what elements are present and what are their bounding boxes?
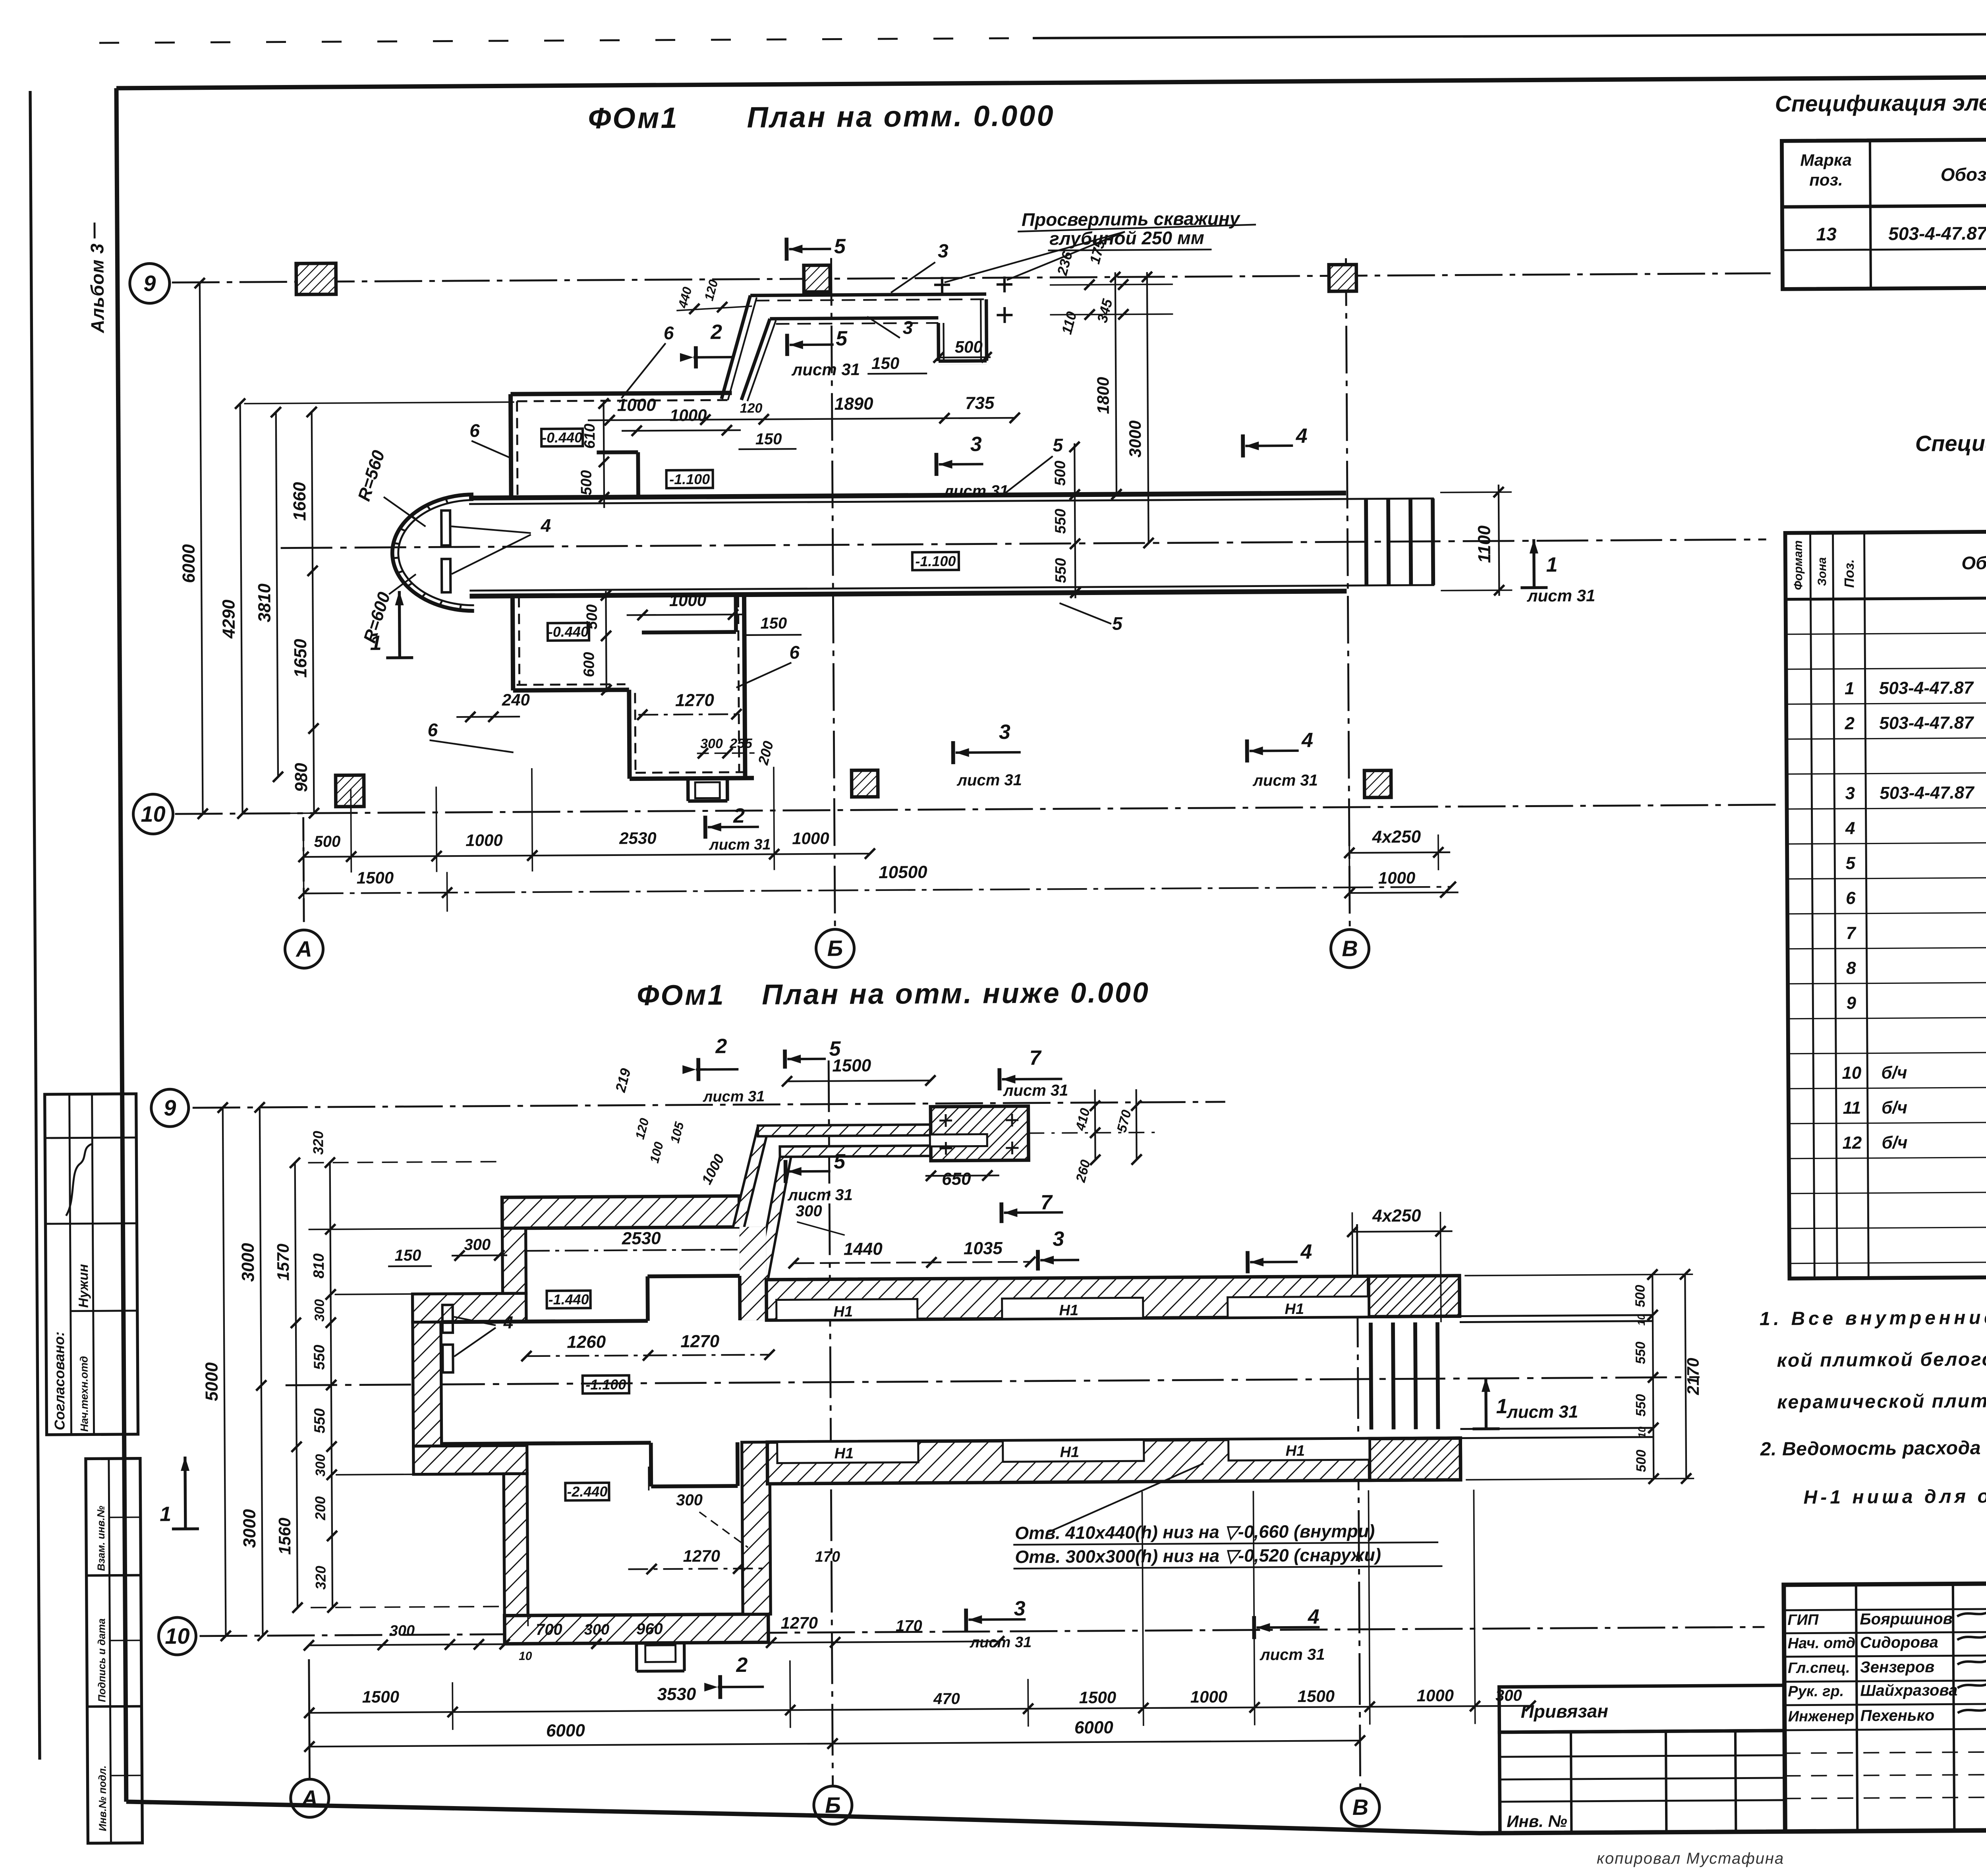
lower bay walls (512, 596, 513, 690)
lower bay sump (686, 779, 690, 801)
svg-text:2: 2 (733, 804, 745, 827)
svg-text:1000: 1000 (669, 591, 707, 610)
svg-text:1270: 1270 (675, 690, 715, 710)
svg-text:500: 500 (955, 337, 983, 356)
dim 1000 below 4x250 (1350, 893, 1459, 893)
svg-text:ФОм1: ФОм1 (637, 979, 725, 1011)
svg-text:4: 4 (1295, 425, 1307, 448)
svg-text:1. Все внутренние поверхности: 1. Все внутренние поверхности канавы обл… (1760, 1304, 1986, 1329)
svg-text:лист 31: лист 31 (1260, 1646, 1325, 1664)
title block revision grid (1499, 1731, 1785, 1833)
svg-text:1000: 1000 (670, 406, 707, 425)
svg-text:503-4-47.87: 503-4-47.87 (1888, 223, 1986, 244)
svg-text:500: 500 (584, 604, 601, 630)
svg-text:3: 3 (938, 241, 949, 262)
svg-text:120: 120 (701, 278, 721, 302)
column on axis 10 left (336, 775, 364, 806)
extension lines left bottom plan (308, 1161, 503, 1163)
svg-text:9: 9 (143, 270, 156, 296)
svg-text:10: 10 (141, 801, 166, 826)
detail leader 4 bottom plan (454, 1317, 496, 1326)
svg-text:1560: 1560 (275, 1518, 294, 1555)
left stamp lower box (86, 1459, 143, 1843)
svg-text:810: 810 (311, 1253, 327, 1279)
svg-text:10: 10 (1636, 1426, 1648, 1438)
left stamp upper box (45, 1094, 138, 1435)
section mark 7 top (997, 1068, 1001, 1090)
svg-text:300: 300 (312, 1299, 327, 1322)
svg-text:300: 300 (1495, 1687, 1522, 1704)
svg-text:500: 500 (1052, 461, 1068, 486)
ramp corridor bottom wall (770, 318, 938, 319)
section mark 1 right bottom plan (1472, 1427, 1499, 1430)
section mark 3 flag left (934, 453, 938, 476)
svg-text:-1.100: -1.100 (669, 471, 710, 488)
svg-text:лист 31: лист 31 (787, 1186, 853, 1204)
svg-text:6: 6 (664, 323, 674, 343)
svg-text:Подпись и дата: Подпись и дата (95, 1618, 108, 1702)
svg-text:ФОм1: ФОм1 (588, 101, 679, 135)
svg-text:Формат: Формат (1792, 540, 1805, 590)
axis 10 bubble bottom (158, 1617, 196, 1655)
bottom dim row 2 bottom plan (309, 1706, 1531, 1713)
svg-text:План на отм. ниже 0.000: План на отм. ниже 0.000 (762, 977, 1150, 1011)
svg-text:лист 31: лист 31 (709, 837, 771, 854)
elevation box -0.440 upper (541, 429, 583, 446)
svg-text:2: 2 (1844, 714, 1855, 733)
dim 240 (456, 716, 520, 718)
elevation box -1.100 upper bay (667, 470, 713, 488)
svg-text:6: 6 (469, 420, 480, 441)
ramp pocket crosses (939, 1119, 952, 1121)
elevation box -1.440 upper (547, 1291, 590, 1308)
svg-text:3000: 3000 (240, 1509, 260, 1548)
column on axis 9 left (296, 263, 336, 295)
svg-text:11: 11 (1843, 1098, 1861, 1118)
svg-text:610: 610 (582, 423, 598, 449)
svg-text:4290: 4290 (219, 599, 239, 639)
dim row upper bay 1000 1890 735 (588, 418, 1015, 420)
left dim chain 4290 (240, 404, 243, 813)
svg-text:копировал Мустафина: копировал Мустафина (1597, 1850, 1784, 1867)
spec table 2 grid (1785, 528, 1986, 1279)
dim 4x250 top plan (1349, 852, 1450, 853)
dim 500 600 lower bay (606, 591, 606, 692)
svg-text:1890: 1890 (835, 394, 874, 414)
dims right of pocket (1095, 1090, 1095, 1160)
section mark 4 top bottom plan (1246, 1251, 1250, 1273)
svg-text:300: 300 (313, 1454, 328, 1477)
svg-text:1: 1 (1546, 553, 1557, 576)
axis A line top plan (303, 817, 304, 928)
svg-text:Н1: Н1 (1060, 1444, 1079, 1461)
svg-text:Обозначение: Обозначение (1941, 164, 1986, 185)
svg-text:поз.: поз. (1809, 170, 1843, 189)
svg-text:лист 31: лист 31 (1252, 772, 1318, 790)
svg-text:550: 550 (311, 1345, 328, 1370)
svg-text:Н1: Н1 (834, 1445, 854, 1462)
svg-text:4: 4 (1301, 729, 1313, 752)
svg-text:1270: 1270 (680, 1331, 720, 1351)
svg-text:5: 5 (834, 1150, 846, 1173)
ramp pocket slot (930, 1134, 987, 1146)
section mark 3 mid (1036, 1250, 1040, 1271)
svg-text:Б: Б (825, 1793, 841, 1818)
svg-text:План на отм. 0.000: План на отм. 0.000 (747, 99, 1055, 133)
pit centerline bottom (286, 1377, 1700, 1385)
section mark 5 list31 bottom plan (784, 1160, 788, 1183)
svg-text:2: 2 (715, 1035, 727, 1058)
left dim chain 1570 1560 (295, 1163, 298, 1607)
svg-text:219: 219 (612, 1066, 634, 1094)
svg-text:Зензеров: Зензеров (1860, 1658, 1935, 1676)
axis V line top plan (1346, 258, 1350, 929)
channel tail lines right (1460, 1315, 1653, 1316)
svg-text:300: 300 (700, 736, 723, 751)
svg-text:керамической плиткой по ГОС: керамической плиткой по ГОСТ 6787-80* (1777, 1389, 1986, 1413)
axis V bubble bottom (1341, 1788, 1380, 1827)
svg-text:-0.440: -0.440 (548, 623, 589, 640)
section 2 list31 bottom dim (703, 815, 707, 839)
svg-text:лист 31: лист 31 (791, 360, 860, 379)
hatched wall lower bay right (742, 1442, 771, 1614)
svg-text:260: 260 (1073, 1158, 1093, 1184)
dim 1270 lower notch (628, 1569, 765, 1569)
svg-text:Инженер: Инженер (1788, 1708, 1855, 1725)
dim 500 pocket (939, 364, 987, 365)
svg-text:Пехенько: Пехенько (1860, 1707, 1935, 1725)
dim 300 1440 1035 row (794, 1262, 1032, 1263)
svg-text:7: 7 (1846, 924, 1857, 943)
svg-text:Зона: Зона (1816, 557, 1829, 586)
svg-text:Согласовано:: Согласовано: (51, 1331, 68, 1430)
tower ladder rungs (442, 1305, 453, 1333)
svg-text:кой плиткой белого цвета п: кой плиткой белого цвета по ГОСТ 6141-82… (1777, 1347, 1986, 1371)
svg-text:1000: 1000 (1190, 1687, 1228, 1706)
left dim chain 3000 3000 (260, 1107, 263, 1636)
axis A bubble top plan (285, 930, 323, 968)
elevation box -2.440 lower (565, 1483, 609, 1501)
lower bay step (642, 632, 736, 632)
hatched wall lower bay bottom (504, 1614, 768, 1644)
ramp diagonal walls (721, 296, 751, 399)
extension lines bottom top plan (303, 829, 304, 908)
section mark 5 top bottom plan (783, 1049, 787, 1068)
svg-text:3: 3 (999, 721, 1010, 744)
dim 2530 bay (526, 1250, 738, 1251)
upper bay step (597, 450, 638, 454)
svg-text:3: 3 (903, 317, 913, 338)
axis 9 bubble bottom (151, 1089, 189, 1127)
svg-text:7: 7 (1029, 1047, 1041, 1070)
axis B bubble bottom (814, 1786, 852, 1824)
svg-text:6: 6 (1846, 889, 1856, 908)
svg-text:Альбом 3: Альбом 3 (87, 243, 108, 333)
svg-text:6: 6 (789, 642, 800, 663)
svg-text:Инв.№ подл.: Инв.№ подл. (96, 1766, 108, 1832)
dim row 1260 1270 (526, 1355, 769, 1356)
svg-text:503-4-47.87: 503-4-47.87 (1879, 678, 1974, 698)
svg-text:Нужин: Нужин (76, 1264, 91, 1308)
svg-text:А: А (295, 936, 312, 961)
svg-text:3: 3 (1053, 1227, 1064, 1250)
svg-text:1440: 1440 (844, 1239, 883, 1259)
svg-text:2: 2 (710, 321, 722, 344)
axis B bubble top plan (816, 929, 854, 968)
svg-text:1270: 1270 (683, 1546, 720, 1565)
svg-text:4х250: 4х250 (1372, 1206, 1421, 1226)
svg-text:Шайхразова: Шайхразова (1860, 1681, 1957, 1699)
svg-text:1500: 1500 (357, 868, 394, 887)
svg-text:500: 500 (314, 833, 340, 850)
svg-text:-1.100: -1.100 (915, 553, 956, 570)
upper bay walls (510, 394, 511, 498)
svg-text:470: 470 (933, 1690, 960, 1708)
svg-text:Обозначение: Обозначение (1961, 552, 1986, 574)
svg-text:10: 10 (519, 1650, 532, 1663)
svg-text:10: 10 (1842, 1063, 1862, 1083)
pit end steps (1366, 499, 1366, 585)
hatched wall bay left (502, 1228, 526, 1293)
column on axis 10 right (1364, 771, 1391, 798)
bottom dim row 3 bottom plan (309, 1741, 1360, 1747)
svg-text:9: 9 (1846, 993, 1856, 1013)
svg-text:6: 6 (427, 719, 438, 740)
svg-text:1270: 1270 (780, 1613, 818, 1633)
svg-text:Инв. №: Инв. № (1507, 1812, 1567, 1831)
dim verticals 1800 3000 (1115, 272, 1117, 495)
svg-text:Спецификация элементов сборной: Спецификация элементов сборной конструкц… (1775, 87, 1986, 116)
svg-text:Гл.спец.: Гл.спец. (1788, 1660, 1850, 1677)
svg-text:3530: 3530 (657, 1685, 696, 1704)
svg-text:12: 12 (1842, 1133, 1862, 1153)
svg-text:6000: 6000 (1074, 1718, 1114, 1738)
ramp diagonal wall right bottom plan (756, 1157, 792, 1280)
left dim chain small (330, 1163, 332, 1607)
svg-text:R=560: R=560 (354, 448, 389, 503)
channel end dense hatch top (1368, 1276, 1460, 1317)
svg-text:1000: 1000 (792, 829, 829, 848)
svg-text:120: 120 (632, 1117, 651, 1141)
section 2 flag bottom row (718, 1675, 722, 1699)
extension verticals bottom dims (452, 1682, 453, 1730)
niches N1 bottom band (777, 1441, 918, 1463)
svg-text:650: 650 (942, 1169, 971, 1189)
column on axis 9 middle (804, 265, 830, 292)
svg-text:4: 4 (1308, 1606, 1319, 1629)
svg-text:100: 100 (647, 1140, 666, 1165)
svg-text:Марка: Марка (1800, 151, 1852, 170)
dim 1000 150 lower bay (627, 614, 746, 615)
svg-text:500: 500 (1634, 1449, 1649, 1472)
spec table 1 grid (1782, 136, 1986, 289)
svg-text:4x250: 4x250 (1372, 827, 1421, 847)
svg-text:240: 240 (502, 690, 530, 709)
svg-text:150: 150 (755, 430, 782, 448)
section mark 3 bottom (964, 1609, 968, 1631)
svg-text:1000: 1000 (617, 395, 657, 415)
dim 1270 lower bay (638, 714, 743, 715)
svg-text:1000: 1000 (1378, 868, 1416, 887)
svg-text:Н1: Н1 (1059, 1302, 1078, 1319)
svg-text:1260: 1260 (567, 1332, 606, 1352)
axis 10 line bottom (199, 1627, 1764, 1636)
hatched wall lower bay sump (635, 1643, 638, 1671)
hatched wall left horizontal upper (412, 1293, 526, 1322)
drill leaders (944, 232, 1125, 282)
left dim chain 6000 (200, 283, 203, 814)
svg-text:1: 1 (370, 632, 381, 655)
svg-text:Спецификафия монолитной ко: Спецификафия монолитной конструкции (1915, 428, 1986, 456)
hatched wall left tower (413, 1322, 442, 1446)
section mark 2 bottom plan (696, 1058, 700, 1081)
section mark 4 bottom top plan (1245, 740, 1249, 763)
channel end dense hatch bottom (1370, 1438, 1461, 1480)
svg-text:1500: 1500 (1079, 1688, 1117, 1707)
svg-text:-0.440: -0.440 (542, 429, 582, 446)
ramp corridor top wall (750, 294, 986, 295)
ladder rungs in semicircle (441, 510, 450, 545)
svg-text:13: 13 (1816, 224, 1837, 244)
drill crosses (934, 284, 950, 286)
svg-text:300: 300 (390, 1623, 415, 1639)
svg-text:А: А (301, 1785, 318, 1810)
ramp corridor bottom wall bottom plan (780, 1146, 931, 1157)
svg-text:-1.100: -1.100 (585, 1376, 626, 1393)
svg-text:ГИП: ГИП (1787, 1611, 1819, 1628)
hole note leader (1049, 1463, 1204, 1532)
axis 9 bubble (130, 263, 170, 303)
title block signature columns (1856, 1584, 1858, 1831)
svg-text:б/ч: б/ч (1882, 1098, 1907, 1117)
ramp pocket (931, 1106, 1029, 1161)
hatched wall lower bay left (504, 1474, 528, 1615)
svg-text:3: 3 (970, 433, 982, 456)
axis 10 bubble (133, 794, 173, 834)
svg-text:1: 1 (160, 1503, 171, 1526)
svg-text:3000: 3000 (1126, 420, 1145, 458)
dim 1500 ramp top (787, 1080, 930, 1081)
svg-text:10: 10 (165, 1623, 190, 1648)
axis 9 line bottom (193, 1102, 1225, 1108)
svg-text:В: В (1342, 936, 1358, 961)
svg-text:503-4-47.87: 503-4-47.87 (1879, 713, 1974, 733)
left dim chain 1660 1650 980 (312, 412, 314, 813)
svg-text:лист 31: лист 31 (956, 771, 1022, 789)
svg-text:170: 170 (815, 1549, 840, 1565)
svg-text:Нач.техн.отд: Нач.техн.отд (78, 1356, 90, 1432)
svg-text:105: 105 (667, 1120, 687, 1145)
svg-text:Н-1 ниша для освещения: Н-1 ниша для освещения (1803, 1485, 1986, 1508)
svg-text:Сидорова: Сидорова (1860, 1634, 1938, 1652)
pit channel top wall (469, 493, 1346, 498)
column on axis 9 right (1329, 265, 1356, 291)
svg-text:570: 570 (1114, 1108, 1134, 1134)
svg-text:700: 700 (536, 1621, 562, 1638)
section mark 5 list31 (785, 334, 789, 356)
svg-text:5: 5 (1845, 854, 1855, 873)
svg-text:300: 300 (676, 1492, 703, 1509)
dim chain vertical 500 550 550 (1074, 443, 1075, 598)
svg-text:110: 110 (1058, 310, 1080, 336)
axis V bubble top plan (1331, 929, 1369, 968)
svg-text:200: 200 (312, 1496, 328, 1521)
ramp diagonal wall left bottom plan (732, 1126, 769, 1227)
svg-text:120: 120 (740, 401, 763, 416)
svg-text:Отв. 300х300(h) низ на ▽-0,520: Отв. 300х300(h) низ на ▽-0,520 (снаружи) (1015, 1545, 1381, 1567)
title block main outline (1784, 1580, 1986, 1832)
svg-text:Н1: Н1 (1285, 1301, 1304, 1318)
svg-text:Отв. 410х440(h) низ на ▽-0,660: Отв. 410х440(h) низ на ▽-0,660 (внутри) (1015, 1521, 1375, 1543)
bottom dim row 2 top plan (304, 887, 1451, 894)
channel top wall band (766, 1276, 1460, 1320)
svg-text:б/ч: б/ч (1881, 1063, 1907, 1082)
svg-text:Поз.: Поз. (1842, 559, 1857, 588)
elevation box -1.100 center (583, 1376, 629, 1394)
column on axis 10 middle (852, 770, 878, 797)
dim 1100 right end (1499, 485, 1499, 596)
svg-text:1650: 1650 (291, 639, 311, 678)
svg-text:1: 1 (1496, 1395, 1508, 1418)
svg-text:7: 7 (1041, 1191, 1053, 1214)
svg-text:735: 735 (965, 393, 995, 413)
svg-text:В: В (1352, 1795, 1369, 1820)
svg-text:3: 3 (1845, 784, 1855, 803)
svg-text:150: 150 (394, 1247, 421, 1264)
svg-text:980: 980 (292, 763, 311, 792)
left dim chain 5000 (223, 1108, 226, 1636)
svg-text:1: 1 (1845, 679, 1855, 698)
svg-text:Взам. инв.№: Взам. инв.№ (95, 1506, 107, 1571)
svg-text:1570: 1570 (274, 1244, 293, 1281)
svg-text:200: 200 (755, 739, 777, 767)
section mark 4 right top (1241, 435, 1245, 458)
section mark 4 bottom (1252, 1616, 1256, 1639)
svg-text:600: 600 (581, 652, 597, 677)
svg-text:320: 320 (310, 1131, 326, 1155)
section mark 1 right top plan (1520, 586, 1547, 589)
svg-text:Н1: Н1 (833, 1303, 853, 1320)
svg-text:5: 5 (1053, 435, 1063, 455)
svg-text:лист 31: лист 31 (1526, 586, 1595, 605)
svg-text:5: 5 (834, 235, 846, 258)
svg-text:10: 10 (1635, 1314, 1647, 1326)
svg-text:1500: 1500 (1298, 1687, 1335, 1706)
axis 10 line (175, 805, 1776, 814)
section mark 5 top (784, 238, 788, 261)
svg-text:1000: 1000 (698, 1151, 728, 1187)
svg-text:1100: 1100 (1474, 525, 1494, 563)
svg-text:345: 345 (1094, 297, 1116, 324)
svg-text:-2.440: -2.440 (567, 1483, 607, 1500)
svg-text:лист 31: лист 31 (1506, 1402, 1578, 1422)
right end dim stack (1652, 1274, 1654, 1479)
bottom dim row 1 top plan (303, 854, 870, 857)
svg-text:2170: 2170 (1683, 1358, 1702, 1395)
dim extension top bay (244, 402, 514, 404)
section mark 1 up top plan (386, 656, 413, 659)
svg-text:150: 150 (760, 614, 787, 632)
svg-text:550: 550 (1633, 1394, 1648, 1416)
pit channel bottom wall (469, 591, 1347, 596)
svg-text:3: 3 (1014, 1597, 1025, 1620)
pit left semicircle inner (398, 500, 474, 606)
svg-text:236: 236 (1054, 249, 1076, 277)
svg-text:1000: 1000 (466, 831, 503, 850)
svg-text:лист 31: лист 31 (703, 1088, 765, 1105)
svg-text:лист 31: лист 31 (1003, 1082, 1068, 1099)
svg-text:1660: 1660 (290, 482, 310, 521)
